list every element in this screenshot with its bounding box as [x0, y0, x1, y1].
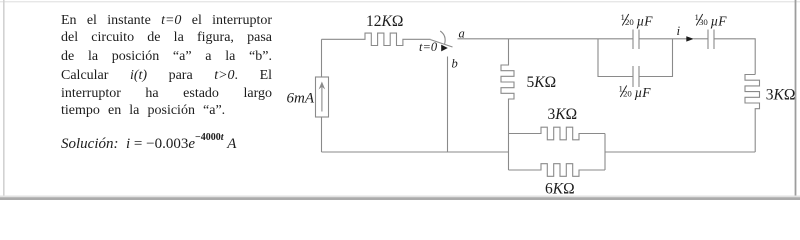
bottom wire right segment	[605, 151, 755, 153]
wire to cap C3	[694, 38, 709, 40]
capacitor C3 1/30uF plates	[708, 30, 714, 50]
left vertical wire upper	[321, 39, 323, 77]
label 1/20 µF bottom	[619, 83, 652, 100]
switch blade	[431, 40, 453, 47]
svg-text:µF: µF	[711, 14, 728, 29]
parallel caps loop: left drop, bottom branch, right rise	[598, 39, 673, 77]
svg-text:5KΩ: 5KΩ	[527, 74, 557, 91]
svg-text:12KΩ: 12KΩ	[366, 13, 403, 30]
label 1/30 µF	[695, 12, 728, 29]
current i arrowhead	[686, 36, 694, 41]
svg-text:20: 20	[625, 17, 634, 27]
svg-text:a: a	[459, 27, 465, 41]
svg-text:t=0: t=0	[419, 40, 438, 54]
capacitor C1 1/20uF plates (top)	[633, 30, 639, 50]
top wire from contact a to caps	[458, 38, 634, 40]
page frame borders	[0, 1, 800, 2]
svg-text:3KΩ: 3KΩ	[766, 86, 796, 103]
bottom wire left segment	[322, 151, 510, 153]
svg-text:µF: µF	[637, 14, 654, 29]
svg-text:6mA: 6mA	[287, 90, 315, 106]
top wire right + corner	[714, 39, 755, 75]
svg-text:6KΩ: 6KΩ	[545, 181, 575, 198]
svg-text:3KΩ: 3KΩ	[548, 106, 578, 123]
problem statement text	[61, 12, 272, 29]
svg-text:i: i	[677, 23, 681, 38]
left vertical wire lower	[321, 117, 323, 152]
switch throw arrowhead t=0	[441, 45, 448, 52]
switch motion arc	[440, 31, 445, 44]
6K branch: wire + resistor R4 meander	[509, 164, 606, 177]
svg-text:30: 30	[699, 17, 708, 27]
parallel resistors right vertical	[604, 134, 606, 171]
resistor R2 5K vertical meander	[501, 39, 514, 170]
svg-text:20: 20	[623, 89, 632, 99]
wire top-left + resistor R 12K (meander) + wire to switch pivot	[322, 33, 431, 45]
resistor R5 3K right vertical meander	[745, 75, 760, 153]
solution line	[61, 129, 301, 153]
current source arrow shaft	[321, 85, 323, 112]
wire between cap C1 and current arrow	[639, 38, 687, 40]
switch b-contact vertical wire	[447, 57, 449, 153]
current source I1 box	[316, 77, 329, 117]
current source arrowhead	[319, 82, 326, 90]
svg-text:µF: µF	[635, 85, 652, 100]
label 1/20 µF top	[621, 12, 654, 29]
3K branch: wire + resistor R3 meander	[509, 127, 606, 140]
svg-text:b: b	[452, 57, 458, 71]
capacitor C2 1/20uF plates (bottom)	[633, 66, 639, 87]
